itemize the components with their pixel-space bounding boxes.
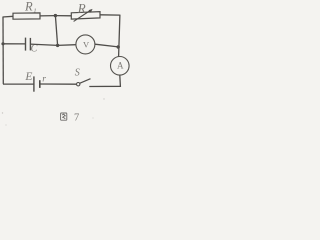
svg-text:C: C: [31, 44, 38, 55]
wire: node A to node C vertical: [55, 16, 57, 46]
svg-text:R: R: [24, 0, 33, 14]
svg-text:A: A: [117, 60, 124, 70]
wire: R1 to node A: [40, 15, 55, 17]
svg-text:V: V: [83, 40, 90, 50]
voltmeter V: [76, 35, 95, 54]
svg-text:E: E: [24, 71, 32, 83]
wire: battery to left rail: [3, 83, 34, 85]
svg-text:1: 1: [33, 7, 36, 14]
wire: left rail to capacitor: [3, 43, 26, 45]
wire: rheostat to top-right corner: [100, 14, 120, 16]
capacitor C: [26, 38, 31, 51]
resistor R1: [13, 13, 40, 19]
wire: top-left horizontal to R1: [3, 15, 14, 18]
battery E r: [34, 76, 40, 91]
wire: right vertical down to ammeter: [119, 15, 120, 57]
wire: voltmeter to node B: [95, 44, 118, 47]
node on left rail (junction dot): [1, 42, 4, 45]
node B (junction dot right): [117, 45, 120, 48]
rheostat R (variable resistor): [71, 9, 100, 22]
svg-text:7: 7: [74, 112, 79, 123]
switch S: [77, 79, 91, 86]
svg-text:R: R: [77, 0, 86, 15]
svg-text:r: r: [42, 74, 46, 84]
ammeter A: [111, 57, 130, 76]
wire: left vertical rail: [2, 17, 4, 84]
caption 图 7: [61, 113, 67, 120]
wire: node A to rheostat: [55, 15, 71, 17]
wire: capacitor to node C: [30, 44, 57, 45]
wire: node C to voltmeter: [58, 44, 76, 47]
node C (junction dot middle): [56, 44, 59, 47]
wire: switch to battery: [40, 83, 77, 85]
node A (junction dot top): [54, 14, 57, 17]
wire: ammeter to bottom-right corner: [89, 75, 120, 86]
faint scan specks (noise): [2, 112, 3, 113]
svg-text:S: S: [75, 68, 80, 79]
